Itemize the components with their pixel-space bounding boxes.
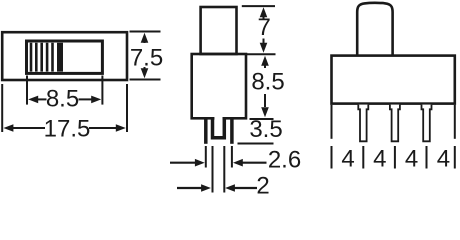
dim 2.6 extension line 3 <box>223 146 225 193</box>
dim 7.5 top extension line <box>130 31 161 33</box>
dim 17.5 right extension line <box>126 84 128 132</box>
terminal pin left (end view) <box>204 119 208 144</box>
dim 2.6 left leader and arrow <box>170 159 205 167</box>
svg-text:4: 4 <box>341 146 354 173</box>
dim 2.6 extension line 2 <box>212 146 214 193</box>
body left edge extension <box>331 105 333 139</box>
dim 7 upper arrow <box>260 7 268 18</box>
pin spacing extension line d <box>426 146 428 169</box>
actuator knob (side view, domed top) <box>357 3 392 56</box>
terminal pin 3 (side view) <box>422 105 432 142</box>
pin spacing extension line e <box>454 146 456 169</box>
svg-text:8.5: 8.5 <box>251 69 284 96</box>
dim 8.5 (middle) upper arrow <box>261 56 269 68</box>
switch body (side view) <box>332 56 455 104</box>
svg-text:17.5: 17.5 <box>44 116 91 143</box>
svg-text:4: 4 <box>373 146 386 173</box>
dim 8.5 right extension line <box>101 76 103 105</box>
svg-text:7: 7 <box>258 14 271 41</box>
dim 2 left leader and arrow <box>177 184 211 192</box>
center terminal notch (U shape) <box>213 118 225 138</box>
svg-text:4: 4 <box>405 146 418 173</box>
dim 7.5 upper arrow <box>141 33 149 43</box>
actuator knob (end view) <box>201 7 237 54</box>
knob right edge (thick) <box>57 43 63 72</box>
dim 7 lower arrow <box>260 39 268 53</box>
dim 8.5 right arrow and line <box>79 96 102 104</box>
slider slot frame <box>27 41 103 73</box>
dim 8.5 left arrow and line <box>28 96 46 104</box>
extension line at body bottom (right) <box>250 118 274 120</box>
knob hatch line 1 <box>30 43 33 72</box>
pin spacing extension line c <box>394 146 396 169</box>
knob hatch line 2 <box>35 43 38 72</box>
dim 17.5 left extension line <box>1 84 3 132</box>
extension line between actuator and body (right) <box>247 53 276 55</box>
switch body (end view) <box>192 54 246 118</box>
pin spacing extension line b <box>362 146 364 169</box>
dim 7.5 lower arrow <box>141 67 149 78</box>
dim 2.6 right leader and arrow <box>233 159 267 167</box>
knob hatch line 4 <box>46 43 49 72</box>
dim 17.5 right arrow and line <box>89 124 126 132</box>
knob hatch line 5 <box>51 43 54 72</box>
svg-text:7.5: 7.5 <box>130 44 163 71</box>
svg-text:8.5: 8.5 <box>46 85 79 112</box>
dim 7 top extension line <box>242 5 275 7</box>
switch body outline (top view) <box>2 32 127 80</box>
svg-text:3.5: 3.5 <box>249 116 282 143</box>
dim 2.6 extension line 4 <box>231 146 233 168</box>
extension line at pin tips (right) <box>238 143 274 145</box>
terminal pin 1 (side view) <box>358 105 368 142</box>
pin spacing extension line a <box>331 146 333 169</box>
terminal pin right (end view) <box>230 119 234 144</box>
dim 8.5 left extension line <box>26 76 28 105</box>
dim 17.5 left arrow and line <box>3 124 45 132</box>
svg-text:2.6: 2.6 <box>268 146 301 173</box>
svg-text:4: 4 <box>437 146 450 173</box>
dim 7.5 bottom extension line <box>130 79 161 81</box>
dim 2 right leader and arrow <box>225 184 257 192</box>
svg-text:2: 2 <box>256 173 269 200</box>
body right edge extension <box>454 105 456 139</box>
terminal pin 2 (side view) <box>390 105 400 142</box>
dim 2.6 extension line 1 <box>205 146 207 168</box>
dim 8.5 (middle) lower arrow <box>261 94 269 117</box>
notch opening erase <box>214 116 222 122</box>
knob hatch line 3 <box>40 43 43 72</box>
